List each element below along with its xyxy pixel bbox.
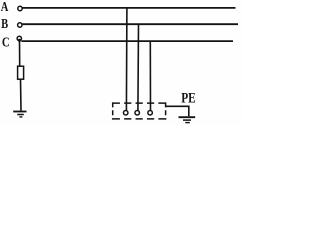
equipment enclosure (dashed box) <box>113 102 166 119</box>
ground PE (protective earth) <box>179 117 196 122</box>
svg-text:PE: PE <box>181 91 196 106</box>
wire enclosure to PE ground <box>166 106 189 116</box>
wire drop from phase B <box>137 24 140 110</box>
motor terminal 3 <box>148 111 153 116</box>
ground (system earth) <box>13 112 26 117</box>
terminal C <box>17 36 21 40</box>
junction at terminal C <box>18 39 21 42</box>
wire phase A <box>22 7 236 9</box>
svg-text:A: A <box>1 0 9 15</box>
wire impedance to system ground <box>20 79 23 111</box>
svg-text:B: B <box>1 16 8 32</box>
motor terminal 2 <box>135 111 140 116</box>
motor terminal 1 <box>123 110 128 115</box>
wire phase C <box>21 40 233 42</box>
impedance Z (earthing resistor) <box>18 66 24 79</box>
terminal B <box>18 23 22 27</box>
wire drop from phase C <box>149 41 151 111</box>
terminal A <box>18 6 22 10</box>
wire drop from phase A <box>125 8 128 110</box>
wire terminal C to impedance <box>19 40 21 66</box>
svg-text:C: C <box>2 34 10 50</box>
wire phase B <box>22 23 238 25</box>
